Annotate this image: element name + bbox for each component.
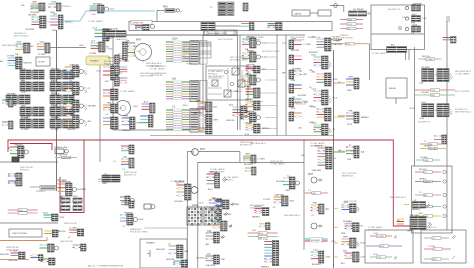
left box inner cluster A: [133, 101, 155, 113]
dimmer connector: [156, 243, 189, 261]
svg-text:SEE PAGE 8A-11: SEE PAGE 8A-11: [146, 64, 163, 67]
svg-text:PNK: PNK: [291, 80, 296, 82]
label note 5: [262, 50, 280, 53]
label note 14: [340, 34, 353, 40]
svg-text:TAN/BLK: TAN/BLK: [252, 216, 261, 219]
svg-text:GRN: GRN: [32, 1, 37, 3]
band connector BC1: [135, 25, 149, 31]
svg-text:BLK/WHT 0.8: BLK/WHT 0.8: [418, 121, 431, 123]
label - battery: [20, 167, 33, 172]
svg-text:RED/YEL: RED/YEL: [58, 231, 66, 233]
svg-text:WHT: WHT: [70, 113, 75, 115]
label note 27: [170, 180, 185, 183]
fuse block FB1: [187, 205, 219, 225]
connector C108: [79, 40, 110, 55]
bus V3 connector C: [334, 144, 365, 161]
svg-text:S214: S214: [172, 39, 178, 41]
svg-text:15A: 15A: [258, 237, 263, 240]
left box text: [140, 72, 157, 78]
bus-left connector BL7: [242, 110, 277, 125]
dimmer bracket: [147, 250, 150, 257]
svg-text:C1-8: C1-8: [346, 44, 350, 46]
svg-text:BULKHEAD CONN: BULKHEAD CONN: [208, 32, 227, 35]
wire - right module drop: [369, 44, 371, 80]
connector C104: [26, 14, 51, 31]
ticks - instrument cluster: [184, 42, 211, 58]
svg-text:GRN: GRN: [106, 38, 111, 40]
box - bottom right box A: [365, 230, 413, 263]
label note 19: [88, 20, 103, 23]
svg-text:LT GRN: LT GRN: [51, 129, 59, 131]
connector right edge: [443, 37, 456, 44]
label note 8: [290, 100, 308, 106]
svg-text:20A FUSE: 20A FUSE: [206, 264, 216, 267]
svg-text:IGNITION SW: IGNITION SW: [6, 249, 19, 251]
svg-text:LT GRN: LT GRN: [69, 227, 77, 229]
svg-text:RED/YEL: RED/YEL: [291, 50, 300, 52]
svg-text:SEE PAGE 8A-11: SEE PAGE 8A-11: [284, 214, 301, 217]
svg-text:SEE PAGE 8A-11: SEE PAGE 8A-11: [455, 110, 472, 113]
left box inner cluster B: [140, 115, 153, 127]
label note 2: [150, 65, 167, 71]
relay K2: [224, 68, 239, 75]
connector tiny TL2: [2, 121, 13, 129]
svg-text:TO TAIL LAMPS: TO TAIL LAMPS: [372, 52, 387, 55]
label note 4: [246, 36, 264, 42]
svg-text:SEE PAGE 8A-11: SEE PAGE 8A-11: [455, 70, 472, 73]
connector C203 row: [349, 9, 371, 16]
svg-text:J-2: J-2: [424, 172, 427, 174]
left box inner cluster tall: [123, 39, 141, 63]
wire - band ticks: [207, 31, 234, 36]
connector grid GL3: [20, 105, 44, 119]
box - right lower module box: [412, 166, 453, 233]
svg-text:A21: A21: [424, 194, 427, 197]
right box row RB3: [415, 192, 446, 197]
connector BLD pair: [58, 227, 84, 239]
label note 30: [346, 223, 364, 228]
svg-text:GRN: GRN: [124, 115, 129, 117]
wire - fuse block link: [144, 227, 187, 229]
svg-text:PNK: PNK: [221, 259, 226, 261]
wire rows BL-A: [8, 209, 38, 215]
svg-text:TAN/BLK: TAN/BLK: [424, 145, 432, 148]
wire - blower feed: [187, 152, 240, 163]
label note 42: [230, 57, 248, 62]
svg-text:IGNITION SW: IGNITION SW: [60, 241, 73, 243]
svg-text:GRN: GRN: [196, 100, 201, 102]
label note 25: [250, 142, 267, 145]
svg-text:HEATER A/C: HEATER A/C: [186, 60, 198, 63]
svg-text:A21: A21: [0, 60, 3, 63]
wire rows DL7: [248, 229, 278, 238]
wire - A/C blue wire: [63, 11, 155, 21]
svg-text:IGNITION SW: IGNITION SW: [344, 201, 357, 203]
wire - relay drop: [395, 98, 397, 104]
horn H1: [144, 204, 155, 209]
svg-text:20A FUSE: 20A FUSE: [412, 2, 422, 5]
wire - mid section top rail: [113, 34, 305, 36]
connector stack S3: [226, 104, 257, 122]
svg-text:PNK: PNK: [163, 7, 168, 9]
right group G3 pair: [410, 102, 453, 120]
connector BLC: [44, 230, 58, 237]
diode box D1: [36, 57, 50, 66]
svg-text:PWR ACC: PWR ACC: [20, 168, 30, 171]
lamp LC1: [120, 196, 134, 205]
component - clockspring circle: [135, 40, 152, 63]
svg-text:C1-8: C1-8: [112, 97, 118, 99]
left box connector IB2: [115, 66, 128, 75]
svg-text:HOT AT ALL TIMES: HOT AT ALL TIMES: [346, 224, 364, 227]
ammeter row: [55, 154, 77, 160]
box - junction JB: [9, 229, 42, 237]
wire - center-right vertical V4: [303, 140, 305, 250]
connector DL5: [252, 205, 269, 219]
svg-text:BLK/WHT: BLK/WHT: [78, 189, 88, 191]
box - top right module box: [371, 5, 425, 50]
svg-text:STRG COLUMN: STRG COLUMN: [103, 29, 118, 31]
wire bundle G3 with connector: [166, 107, 207, 133]
bus-right connector BR5: [289, 96, 309, 110]
svg-text:PWR ACC: PWR ACC: [208, 72, 218, 75]
svg-text:B-14: B-14: [259, 233, 263, 235]
label note 34: [250, 205, 265, 210]
connector BLI: [41, 258, 56, 265]
svg-text:INST CLUSTER: INST CLUSTER: [30, 8, 45, 10]
svg-text:HEATER A/C: HEATER A/C: [342, 174, 354, 177]
svg-text:G102: G102: [373, 233, 378, 235]
boxA row1: [370, 233, 397, 239]
box - fuse/junction block J1: [113, 35, 203, 130]
connector BLF: [73, 244, 86, 251]
connector DL1: [243, 153, 265, 166]
svg-text:FUSIBLE LINK: FUSIBLE LINK: [54, 147, 68, 149]
center box connector CB5: [196, 252, 225, 267]
svg-text:LT GRN: LT GRN: [21, 117, 29, 119]
svg-text:TO TAIL LAMPS: TO TAIL LAMPS: [455, 72, 470, 75]
connector stack S4: [198, 127, 213, 134]
bus-left connector BL6: [245, 99, 277, 113]
connector pair CP1: [199, 197, 240, 212]
wire row WL1: [330, 37, 343, 42]
multi-pin connector DL8: [258, 237, 279, 268]
svg-text:8A - 14 - 2 POWER DISTRIBUTIO: 8A - 14 - 2 POWER DISTRIBUTION: [88, 265, 123, 268]
band lamp: [151, 25, 155, 29]
svg-text:SEE PAGE 8A-11: SEE PAGE 8A-11: [2, 44, 19, 47]
svg-text:GAUGE: GAUGE: [294, 13, 302, 16]
svg-text:LT GRN: LT GRN: [38, 54, 46, 56]
red wire stubs: [8, 147, 10, 149]
right box row RB5: [415, 213, 446, 218]
svg-text:SEE PAGE 8A-11: SEE PAGE 8A-11: [208, 75, 225, 78]
svg-text:C210: C210: [96, 71, 101, 73]
bracket - right top: [446, 17, 450, 22]
svg-text:PWR ACC: PWR ACC: [36, 190, 46, 193]
svg-text:TO TAIL LAMPS: TO TAIL LAMPS: [270, 162, 285, 165]
blower motor symbol: [192, 149, 206, 156]
connector CL2: [113, 155, 134, 171]
wire - right vert pair under box: [406, 50, 410, 60]
svg-text:PNK: PNK: [312, 106, 317, 108]
svg-text:M: M: [192, 151, 195, 155]
fuse F1: [54, 147, 68, 154]
connector M4: [103, 117, 118, 129]
svg-text:G102: G102: [192, 205, 198, 207]
svg-text:J-2: J-2: [113, 161, 116, 163]
connector M2: [103, 89, 118, 100]
wire - center vertical V5: [186, 152, 188, 268]
right group G1 pair: [419, 67, 452, 85]
svg-text:PWR ACC: PWR ACC: [186, 62, 196, 65]
svg-text:SEE PAGE 8A-11: SEE PAGE 8A-11: [310, 144, 327, 147]
svg-text:TO TAIL LAMPS: TO TAIL LAMPS: [224, 176, 239, 179]
svg-text:GRN: GRN: [107, 102, 112, 104]
svg-text:YEL/RED: YEL/RED: [57, 181, 67, 183]
svg-text:C2: C2: [210, 7, 212, 9]
svg-text:IGNITION SW: IGNITION SW: [250, 101, 263, 103]
right label row: [418, 121, 431, 123]
svg-text:TO TAIL LAMPS: TO TAIL LAMPS: [368, 226, 383, 229]
label note 21: [2, 44, 19, 47]
svg-text:B-14: B-14: [282, 43, 286, 45]
center box connector CB4: [206, 229, 226, 246]
svg-text:G102: G102: [79, 45, 84, 47]
tiny bits: [124, 172, 137, 177]
boxB row1: [424, 237, 449, 240]
right bus connector RB1: [334, 202, 360, 213]
bus-left connector BL3: [245, 64, 277, 76]
svg-text:C1-8: C1-8: [199, 203, 203, 205]
connector grid GL0: [20, 68, 44, 82]
box - gauge B4: [318, 10, 331, 16]
connector grid GR0: [50, 68, 74, 82]
AC module connector AC1: [405, 2, 422, 11]
svg-text:B-14: B-14: [403, 17, 407, 19]
svg-text:YEL/RED: YEL/RED: [108, 58, 117, 60]
connector C202 pair: [243, 3, 248, 11]
svg-text:BLK/WHT: BLK/WHT: [312, 264, 322, 266]
svg-text:BLK/WHT: BLK/WHT: [244, 164, 254, 166]
svg-text:WHT: WHT: [124, 61, 129, 63]
connector LM2: [8, 180, 22, 186]
svg-text:20A FUSE: 20A FUSE: [410, 214, 420, 217]
svg-text:IGN 1: IGN 1: [73, 196, 79, 198]
svg-text:INST CLUSTER: INST CLUSTER: [14, 35, 29, 37]
dimmer connector 2: [173, 260, 188, 267]
svg-text:C210: C210: [331, 241, 336, 243]
svg-text:JUNCTION BLK: JUNCTION BLK: [12, 233, 28, 235]
connector stack S2: [192, 112, 219, 129]
wire - right bus V6: [446, 22, 448, 230]
connector C106: [15, 41, 30, 56]
svg-text:YEL/RED: YEL/RED: [88, 106, 97, 108]
svg-text:C2: C2: [433, 238, 435, 240]
svg-text:BLK/WHT: BLK/WHT: [196, 258, 205, 260]
big connector CC1: [301, 144, 337, 172]
right bits: [434, 135, 447, 144]
svg-text:20A FUSE: 20A FUSE: [275, 193, 285, 196]
svg-text:WHT: WHT: [262, 69, 267, 71]
relay wires vertical: [228, 68, 242, 96]
connector DL2: [245, 167, 256, 175]
svg-text:C2: C2: [348, 28, 350, 30]
ignition switch assembly: [174, 181, 198, 204]
connector C105: [50, 12, 73, 32]
label note 16: [186, 60, 198, 66]
svg-text:TAN/BLK: TAN/BLK: [338, 114, 346, 117]
connector M1: [96, 64, 123, 83]
svg-text:INST CLUSTER: INST CLUSTER: [290, 39, 305, 41]
wire - left vertical bus V2: [99, 60, 101, 162]
label note 1: [116, 38, 128, 41]
box - relay center box: [206, 66, 248, 100]
connector BLG: [0, 250, 25, 262]
connector pair CP2: [207, 219, 232, 234]
svg-text:LT GRN: LT GRN: [51, 117, 59, 119]
wire - horizontal rail mid: [150, 135, 333, 137]
boxB brackets: [452, 235, 456, 259]
svg-text:LT GRN: LT GRN: [428, 246, 435, 248]
svg-text:WHT: WHT: [210, 219, 215, 221]
svg-text:DIODE: DIODE: [38, 62, 45, 64]
label note 17: [120, 90, 135, 93]
svg-text:BLK/WHT: BLK/WHT: [298, 95, 307, 97]
box - bottom right box B: [421, 230, 466, 263]
wire - left lower rail: [0, 222, 58, 224]
svg-text:TAN/BLK: TAN/BLK: [424, 180, 432, 183]
svg-text:YEL/RED: YEL/RED: [28, 14, 37, 16]
wire - left vertical bus V1: [56, 30, 58, 191]
bus-left connector BL2: [242, 49, 277, 62]
right bus connector RB4: [334, 249, 367, 265]
svg-text:YEL/RED: YEL/RED: [421, 67, 430, 69]
svg-text:TO TAIL LAMPS: TO TAIL LAMPS: [150, 67, 165, 70]
component - washer pump M1: [157, 7, 182, 13]
svg-text:BLK/WHT: BLK/WHT: [26, 29, 36, 31]
label note 12: [455, 109, 472, 114]
label note 46: [342, 173, 357, 178]
connector BLB: [43, 212, 65, 221]
svg-text:IGNITION SW: IGNITION SW: [64, 223, 77, 225]
connector grid GL4: [20, 117, 44, 131]
svg-text:RED/YEL: RED/YEL: [226, 120, 235, 122]
wire - top bus band outline: [129, 22, 332, 31]
svg-text:TO TAIL LAMPS: TO TAIL LAMPS: [208, 70, 223, 73]
svg-text:TO TAIL LAMPS: TO TAIL LAMPS: [246, 38, 261, 41]
svg-text:LT GRN: LT GRN: [377, 236, 384, 238]
wire - right bus V7: [414, 47, 416, 166]
right column connector RC2: [309, 54, 332, 72]
svg-text:HOT AT ALL TIMES: HOT AT ALL TIMES: [262, 50, 280, 53]
svg-text:G102: G102: [133, 106, 138, 108]
svg-text:A21: A21: [397, 220, 400, 223]
relay box wires: [208, 70, 225, 94]
svg-text:TAN/BLK: TAN/BLK: [419, 178, 427, 181]
svg-text:4X: 4X: [368, 13, 371, 16]
svg-text:SEE PAGE 8A-11: SEE PAGE 8A-11: [146, 62, 163, 65]
AC module connector AC2: [403, 14, 428, 25]
label note 32: [368, 226, 383, 232]
svg-text:C2: C2: [338, 81, 340, 83]
svg-text:PNK: PNK: [313, 202, 318, 204]
label note 26: [270, 161, 285, 166]
svg-text:INST CLUSTER: INST CLUSTER: [455, 91, 470, 93]
svg-text:HEATER A/C: HEATER A/C: [96, 45, 108, 48]
bus-right connector BR1: [282, 38, 311, 52]
svg-text:20A FUSE: 20A FUSE: [156, 248, 166, 251]
svg-text:20A FUSE: 20A FUSE: [0, 253, 10, 256]
label note 22: [30, 6, 45, 11]
right column connector RC6: [298, 122, 336, 135]
wire - tan feed: [0, 259, 29, 261]
label note 39: [60, 241, 73, 243]
svg-text:TAN/BLK: TAN/BLK: [122, 129, 131, 132]
svg-text:RELAY: RELAY: [389, 87, 397, 90]
wire row WL2: [330, 41, 370, 46]
footer text: [88, 265, 123, 268]
band label box: [131, 21, 152, 25]
connector DL4: [263, 193, 295, 209]
right box row RB2: [415, 178, 446, 184]
svg-text:PNK: PNK: [52, 30, 57, 32]
svg-text:RED/YEL: RED/YEL: [67, 129, 76, 131]
svg-text:A/C: A/C: [391, 44, 395, 47]
center box connector CB1: [207, 170, 240, 191]
connector C103 with lamp: [90, 3, 115, 16]
connector M3: [103, 102, 123, 116]
connector grid GL1: [20, 80, 44, 94]
boxA row3: [370, 254, 397, 260]
center box connector CB3: [199, 207, 233, 223]
wire - battery feed (red) branch: [10, 144, 52, 151]
bus V3 connector B: [334, 110, 370, 126]
label note 23: [62, 5, 72, 8]
connector below box: [387, 47, 407, 53]
svg-text:RED/YEL: RED/YEL: [422, 56, 430, 58]
svg-text:B-14: B-14: [410, 108, 414, 110]
label note 11: [455, 91, 470, 93]
label note 31: [390, 196, 407, 199]
svg-text:HEATER A/C: HEATER A/C: [130, 228, 142, 231]
svg-text:15A: 15A: [172, 78, 177, 81]
svg-text:IGNITION SW: IGNITION SW: [250, 207, 263, 209]
svg-text:C2: C2: [424, 141, 426, 143]
lamp cluster L2: [57, 80, 91, 95]
svg-text:S214: S214: [373, 254, 377, 256]
component - sender with ring: [330, 4, 344, 12]
svg-text:LT GRN: LT GRN: [304, 44, 312, 46]
label note 44: [310, 142, 327, 148]
svg-text:RED/YEL: RED/YEL: [419, 169, 427, 171]
lamp cluster DL3: [276, 175, 299, 192]
bus-left connector BL1: [242, 36, 277, 51]
svg-text:BLK/WHT: BLK/WHT: [311, 240, 321, 242]
svg-text:PWR ACC: PWR ACC: [340, 34, 350, 37]
wire row WR1: [340, 18, 363, 21]
wire row center: [305, 190, 328, 195]
ignition switch cluster: [57, 180, 87, 199]
wire - battery feed (red) main: [8, 140, 414, 226]
relay K4b: [212, 80, 218, 86]
band connector BC4: [268, 23, 283, 31]
svg-text:RED/YEL: RED/YEL: [247, 64, 256, 66]
label note 40: [98, 179, 113, 184]
svg-text:BLK/WHT 0.8: BLK/WHT 0.8: [368, 229, 381, 231]
svg-text:J-2: J-2: [419, 192, 422, 194]
svg-text:RED/YEL: RED/YEL: [15, 144, 24, 146]
svg-text:FUSIBLE: FUSIBLE: [90, 61, 99, 63]
